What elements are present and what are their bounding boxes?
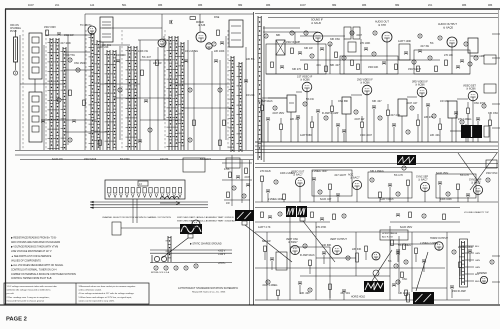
tube V13 SYNC SEP xyxy=(420,182,429,191)
wire video row link2 xyxy=(296,91,302,93)
AGC keyer box xyxy=(226,158,240,168)
capacitor C213 xyxy=(280,66,284,68)
wire vert left 3 xyxy=(67,35,69,145)
selector bus arrowhead 1 xyxy=(90,201,94,203)
test point tp517 xyxy=(308,288,312,292)
selector rotor arrow xyxy=(160,201,180,204)
waveform W2 tag xyxy=(300,217,305,221)
wire C301 lead xyxy=(267,121,269,143)
wire C313 lead xyxy=(373,109,375,143)
svg-text:.047 5%: .047 5% xyxy=(66,54,76,57)
svg-text:OSC 1500: OSC 1500 xyxy=(74,62,86,65)
wire video row bus xyxy=(255,141,498,143)
wire R306 lead xyxy=(311,128,313,143)
svg-text:1500 1W: 1500 1W xyxy=(64,34,74,37)
capacitor C416 xyxy=(466,194,470,196)
svg-text:① 6AC7: ① 6AC7 xyxy=(350,176,360,180)
waveform W4 tag xyxy=(188,234,193,238)
svg-text:33K 2.2MEG: 33K 2.2MEG xyxy=(370,170,384,173)
capacitor C122 xyxy=(138,140,142,142)
svg-text:6AU6 150V: 6AU6 150V xyxy=(436,172,449,175)
wire R409 lead xyxy=(379,198,381,203)
waveform W6 long leader xyxy=(416,252,428,291)
test point tp211 xyxy=(474,56,478,60)
svg-text:4B3: 4B3 xyxy=(266,4,271,7)
capacitor C116 xyxy=(214,60,218,62)
svg-text:270 10K: 270 10K xyxy=(444,54,453,57)
funnel diagonal 1 xyxy=(458,153,480,184)
wire R327 lead top xyxy=(489,114,491,120)
test point tp520 xyxy=(396,280,400,284)
wire cluster h2 xyxy=(222,179,252,181)
selector contact 6 xyxy=(137,188,140,194)
wire C501 lead xyxy=(271,261,273,271)
switch section boundary 3 xyxy=(85,30,87,150)
wire C516 lead xyxy=(299,285,301,295)
svg-text:⑥ 6AQ5: ⑥ 6AQ5 xyxy=(443,26,454,30)
waveform photo W3 pair xyxy=(297,206,307,217)
wire bus h11 xyxy=(44,119,96,121)
waveform photo W5 horiz xyxy=(364,281,384,292)
svg-text:RED: RED xyxy=(475,281,480,283)
coil L1 slug xyxy=(32,37,39,43)
svg-text:5% 2.2MEG: 5% 2.2MEG xyxy=(398,244,411,247)
wire C413 lead xyxy=(439,185,441,203)
mixer box detail 5 xyxy=(102,36,111,38)
wire C310 lead xyxy=(337,127,339,143)
osc coil can det3 xyxy=(231,39,241,41)
wire right edge stub 6 xyxy=(492,281,500,283)
svg-text:voltmeter; AC voltage measured: voltmeter; AC voltage measured at 1000 o… xyxy=(7,289,51,292)
svg-text:HORIZ OUTPUT: HORIZ OUTPUT xyxy=(430,237,448,240)
test point tp408 xyxy=(370,178,374,182)
selector contact 8 xyxy=(149,188,152,194)
ratio det box xyxy=(399,44,410,60)
tube V2 osc xyxy=(158,39,166,47)
svg-text:22K 1W: 22K 1W xyxy=(153,62,162,65)
wire bus h18 xyxy=(100,27,162,29)
svg-text:5% 1500: 5% 1500 xyxy=(120,158,130,161)
wire bus h17 xyxy=(138,39,168,41)
coil L7 slug xyxy=(32,116,39,122)
test point s232 xyxy=(418,34,422,38)
test point tp117 xyxy=(218,88,222,92)
svg-text:4B3: 4B3 xyxy=(362,4,367,7)
wire V11 drop xyxy=(299,187,301,202)
svg-text:SWITCHED PART #A3504-C ASSEMB: SWITCHED PART #A3504-C ASSEMBLY PART #03… xyxy=(177,216,234,219)
wire video row link5 xyxy=(457,98,468,100)
test point tp120 xyxy=(68,138,72,142)
test point near V4 xyxy=(304,31,308,35)
wire loop row3 stage3 xyxy=(436,174,476,198)
svg-text:◄ SEE PARTS LIST FOR ALTERNATE: ◄ SEE PARTS LIST FOR ALTERNATE xyxy=(11,255,52,258)
wire vert left 16 xyxy=(245,47,247,150)
svg-text:270 470K: 270 470K xyxy=(316,226,327,229)
tube V14 tuner triode xyxy=(192,220,200,228)
wire video grid bus xyxy=(262,97,287,99)
wire C325 lead xyxy=(477,121,479,143)
tube V10 VIDEO DET xyxy=(468,91,478,101)
wire R315 lead xyxy=(387,116,389,143)
svg-text:SWITCHED PART #A3504-C ASSEMB: SWITCHED PART #A3504-C ASSEMBLY PART #03… xyxy=(177,220,236,223)
wire right edge stub 1 xyxy=(492,33,500,35)
wire sound feed drop xyxy=(294,32,296,44)
test point tp202 xyxy=(328,42,332,46)
wire Z1 drop xyxy=(275,54,277,74)
test point tp323 xyxy=(460,120,464,124)
resistor R521 xyxy=(405,290,408,296)
resistor R215 xyxy=(351,60,354,66)
capacitor C325 xyxy=(476,118,480,120)
resistor R72 xyxy=(401,272,404,278)
svg-text:⑦ 6CB6: ⑦ 6CB6 xyxy=(466,87,476,91)
wire C416 lead xyxy=(467,197,469,203)
test point tp305 xyxy=(303,102,307,106)
wire R503 lead xyxy=(309,266,311,275)
capacitor C504 xyxy=(322,252,326,254)
tuner link wire xyxy=(121,227,192,229)
coil ladder L106 xyxy=(111,50,117,150)
wire C504 lead xyxy=(323,255,325,265)
switch section boundary 5 xyxy=(164,30,166,150)
capacitor C310 xyxy=(336,124,340,126)
resistor R327 xyxy=(489,120,492,126)
wire bus h5 xyxy=(15,150,253,152)
selector drop wire 1 xyxy=(132,199,134,223)
wire defl v6 xyxy=(355,232,357,276)
wire video row bus2 xyxy=(255,145,498,147)
wire C404 lead xyxy=(313,181,315,203)
waveform W1 leader xyxy=(245,225,292,262)
IF transformer M4 xyxy=(448,101,457,118)
capacitor C410 xyxy=(388,184,392,186)
capacitor C522 xyxy=(450,286,454,288)
svg-text:VERT OUTPUT: VERT OUTPUT xyxy=(330,238,347,241)
svg-text:10K 68K: 10K 68K xyxy=(322,244,332,247)
svg-text:6AU6 .047: 6AU6 .047 xyxy=(320,198,332,201)
wire V10 cathode xyxy=(472,101,474,142)
svg-text:150V IF AMP: 150V IF AMP xyxy=(286,41,300,44)
wire deflection h1 xyxy=(255,267,445,269)
wire right edge stub 3 xyxy=(492,103,500,105)
IF transformer M1 xyxy=(287,95,296,112)
capacitor C210 xyxy=(460,60,464,62)
svg-text:VOLUME LINEARITY TOP: VOLUME LINEARITY TOP xyxy=(464,211,489,214)
resistor R230 xyxy=(305,64,308,70)
svg-text:4B3: 4B3 xyxy=(488,4,493,7)
selector contact 7 pointer xyxy=(143,194,146,198)
coil L6 slug xyxy=(32,106,39,112)
svg-text:5% 4.7K: 5% 4.7K xyxy=(460,174,469,177)
wire V5 drop xyxy=(386,42,388,74)
capacitor C219 xyxy=(404,52,408,54)
tube V6 output 6AQ5 xyxy=(447,37,457,47)
waveform photo W1 sawtooth xyxy=(235,210,254,221)
tuner trimmer bank xyxy=(112,222,121,235)
resistor R231 xyxy=(325,66,328,72)
wire row3 top bus xyxy=(255,163,498,165)
bus ladder 258 xyxy=(258,16,261,160)
test point tp505 xyxy=(346,256,350,260)
test point tp114 xyxy=(188,88,192,92)
wire mixer link xyxy=(161,14,163,39)
svg-text:+HOT+: +HOT+ xyxy=(218,263,226,265)
resistor R312 xyxy=(361,122,364,128)
wire right edge stub 4 xyxy=(492,127,500,129)
wire deflection h2 xyxy=(255,299,470,301)
wire R330 lead top xyxy=(465,124,467,130)
coil ladder L109 xyxy=(167,36,173,150)
svg-text:1500 10K: 1500 10K xyxy=(368,66,379,69)
wire row3 lower bus b xyxy=(255,207,460,209)
wire video bus d xyxy=(255,152,498,154)
selector contact 9 pointer xyxy=(155,194,158,198)
wire sound row mid xyxy=(300,59,440,61)
capacitor C516 xyxy=(298,282,302,284)
bus vertical 263 xyxy=(263,26,265,162)
wire C519 lead xyxy=(343,293,345,301)
wire R500 lead xyxy=(264,252,266,261)
page border top xyxy=(5,8,500,10)
svg-text:per volt.: per volt. xyxy=(7,292,15,295)
selector contact 4 pointer xyxy=(126,194,129,198)
wire bus h3 xyxy=(100,44,130,46)
wire bus h8 xyxy=(20,83,64,85)
test point 1 xyxy=(13,71,17,75)
wire M3 drop xyxy=(401,116,403,142)
svg-text:JUMPER ON TERMINALS INDICATE C: JUMPER ON TERMINALS INDICATE CONTINUED N… xyxy=(11,273,76,276)
wire video row link3 xyxy=(351,94,362,96)
resistor R66 xyxy=(311,212,314,218)
svg-text:470K: 470K xyxy=(224,168,230,171)
selector bus arrow 2 xyxy=(90,204,208,206)
wire R309 lead top xyxy=(331,100,333,106)
mixer box detail 1 xyxy=(102,21,111,23)
wire loop sound stage 3 xyxy=(414,50,470,74)
capacitor C104 xyxy=(72,120,76,122)
coil ladder L101 xyxy=(54,38,60,150)
svg-text:measured from point to chassis: measured from point to chassis ground. xyxy=(7,299,45,302)
yoke pin wire 3 xyxy=(465,259,474,261)
wire R309 lead xyxy=(331,112,333,143)
wire C328 lead xyxy=(343,133,345,143)
svg-text:2C1: 2C1 xyxy=(55,4,60,7)
svg-text:12AT7 100K: 12AT7 100K xyxy=(398,40,412,43)
wire loop sound stage 1 xyxy=(266,44,326,74)
ac interlock plug xyxy=(152,255,167,263)
selector contact 13 xyxy=(178,188,181,194)
wire bus h10 xyxy=(170,83,230,85)
coil ladder L112 xyxy=(229,56,235,152)
svg-text:12AT7 6AU6: 12AT7 6AU6 xyxy=(380,198,394,201)
wire defl v5 xyxy=(329,247,331,300)
wire R327 lead xyxy=(489,126,491,143)
svg-text:PAGE 2: PAGE 2 xyxy=(6,317,27,323)
svg-text:CHANNEL SELECTOR SWITCH SHOWN: CHANNEL SELECTOR SWITCH SHOWN IN CHANNEL… xyxy=(102,216,171,219)
wire bus h14 xyxy=(114,97,170,99)
resistor R115 xyxy=(193,120,196,126)
wire V14s drop xyxy=(477,195,479,202)
wire bus h7 xyxy=(20,159,253,161)
svg-text:22K 5%: 22K 5% xyxy=(246,58,255,61)
wire R518 lead xyxy=(329,290,331,299)
waveform W4 leader xyxy=(162,238,188,258)
capacitor C510 xyxy=(422,260,426,262)
capacitor C67 xyxy=(396,214,400,216)
svg-text:2.2MEG 100K: 2.2MEG 100K xyxy=(268,198,283,201)
test point tp511 xyxy=(452,250,456,254)
quad coil Z1 x1 xyxy=(276,40,285,55)
test point power 4 xyxy=(184,266,188,270)
resistor R403 xyxy=(283,194,286,200)
wire defl h7 xyxy=(412,287,447,289)
wire R318 lead xyxy=(417,126,419,143)
svg-text:.047 12AT7: .047 12AT7 xyxy=(334,174,347,177)
switch S1 shaft center xyxy=(15,39,17,60)
resistor R70 xyxy=(391,240,394,246)
yoke connector J1 xyxy=(459,241,465,285)
selector contact 8 pointer xyxy=(149,194,152,198)
svg-text:.047 100K: .047 100K xyxy=(60,42,71,45)
capacitor C207 xyxy=(418,50,422,52)
capacitor C113 xyxy=(184,60,188,62)
svg-text:BLU: BLU xyxy=(475,274,480,276)
capacitor C507 xyxy=(396,250,400,252)
capacitor C101 xyxy=(57,33,61,35)
svg-text:4B3: 4B3 xyxy=(198,4,203,7)
capacitor C401 xyxy=(266,190,270,192)
resistor R318 xyxy=(417,120,420,126)
quad coil Z1 xyxy=(276,40,285,55)
wire R330 lead xyxy=(465,136,467,143)
test point tp126 xyxy=(57,98,61,102)
wire vert left 14 xyxy=(219,60,221,150)
coil L5 slug xyxy=(32,96,39,102)
wire C507 lead xyxy=(397,253,399,263)
wire M1 drop xyxy=(290,112,292,142)
capacitor C119 xyxy=(244,80,248,82)
svg-text:.0047: .0047 xyxy=(356,34,363,37)
svg-text:OFF-ON: OFF-ON xyxy=(10,25,19,27)
wire V13 drop xyxy=(424,192,426,202)
svg-text:5% 4.7K: 5% 4.7K xyxy=(394,174,403,177)
resistor R62 xyxy=(245,168,248,174)
svg-text:2 Res. readings over 1 meg ar: 2 Res. readings over 1 meg are in megohm… xyxy=(7,297,50,299)
svg-text:③ 6J6: ③ 6J6 xyxy=(198,23,206,27)
tube V16 vert out xyxy=(332,245,341,254)
selector contact 6 pointer xyxy=(137,194,140,198)
wire top bus right 2 xyxy=(268,17,498,19)
wire bus h15 xyxy=(64,69,92,71)
svg-text:1W 1500: 1W 1500 xyxy=(116,54,126,57)
test point tp502 xyxy=(303,244,307,248)
test point s231 xyxy=(350,31,354,35)
test point t67 xyxy=(422,214,426,218)
svg-text:5% 1W: 5% 1W xyxy=(306,98,314,101)
coil ladder L103 xyxy=(89,33,95,150)
test point tp123 xyxy=(188,138,192,142)
capacitor C216 xyxy=(320,48,324,50)
selector contact 5 xyxy=(131,188,134,194)
bus vertical left of sound section xyxy=(253,12,255,305)
selector contact 13 pointer xyxy=(179,194,182,198)
IF transformer M3 xyxy=(398,99,407,116)
wire row3 top bus b xyxy=(255,167,498,169)
svg-text:22K 100K: 22K 100K xyxy=(214,50,225,53)
svg-text:4B3: 4B3 xyxy=(462,4,467,7)
capacitor C304 xyxy=(296,116,300,118)
selector contact 1 xyxy=(108,188,111,194)
svg-text:2.2MEG 1500: 2.2MEG 1500 xyxy=(458,246,473,249)
wire R412 lead xyxy=(407,186,409,203)
svg-text:4B3: 4B3 xyxy=(158,4,163,7)
svg-text:4C07: 4C07 xyxy=(28,4,34,7)
capacitor C301 xyxy=(266,118,270,120)
tube V19 damper xyxy=(480,276,487,283)
wire C407 lead xyxy=(337,197,339,203)
wire R324 lead xyxy=(467,114,469,143)
horiz range box xyxy=(380,230,408,240)
wire R306 lead top xyxy=(311,116,313,122)
capacitor C519 xyxy=(342,290,346,292)
test point tp205 xyxy=(372,52,376,56)
svg-text:270 100K: 270 100K xyxy=(360,42,371,45)
test point tp108 xyxy=(118,88,122,92)
wire bus h16 xyxy=(182,107,232,109)
capacitor C316 xyxy=(392,124,396,126)
svg-text:6AU6 270: 6AU6 270 xyxy=(52,158,63,161)
wire V7 cathode xyxy=(306,92,308,142)
tube V1 RF amp xyxy=(88,26,96,34)
resistor R22 mixer plate xyxy=(190,17,196,20)
waveform photo W2 pair xyxy=(286,206,296,217)
quad coil Z1 x2 xyxy=(276,40,285,55)
test point t62 xyxy=(242,194,246,198)
capacitor C319 xyxy=(426,104,430,106)
test point tp414 xyxy=(446,192,450,196)
wire top bus right xyxy=(255,13,498,15)
capacitor C110 xyxy=(144,100,148,102)
test point near V5 xyxy=(373,31,377,35)
switch wafer 4B3 upper xyxy=(29,33,42,79)
capacitor C125 xyxy=(41,120,45,122)
coil ladder L113 xyxy=(237,62,243,152)
svg-text:5% 12AT7: 5% 12AT7 xyxy=(200,158,212,161)
svg-text:▶ VOLTAGE READINGS TAKEN WITH: ▶ VOLTAGE READINGS TAKEN WITH VTVM xyxy=(11,246,58,249)
test point power 2 xyxy=(164,266,168,270)
wire R303 lead xyxy=(280,130,282,143)
svg-text:68K 1W: 68K 1W xyxy=(262,240,271,243)
resistor R503 xyxy=(309,260,312,266)
svg-text:IF AMP 6AU6: IF AMP 6AU6 xyxy=(300,254,315,257)
wire C304 lead xyxy=(297,119,299,143)
output transformer T3 xyxy=(468,38,478,53)
svg-text:FINE: FINE xyxy=(214,17,220,19)
svg-text:2C1: 2C1 xyxy=(428,4,433,7)
wire C522 lead xyxy=(451,289,453,299)
capacitor C65 xyxy=(268,216,272,218)
terminal board TB2 xyxy=(484,84,496,93)
resistor R232 xyxy=(417,66,420,72)
tube V8 2ND VIDEO IF xyxy=(362,85,372,95)
selector contact 3 pointer xyxy=(120,194,123,198)
page border right xyxy=(498,9,500,305)
switch S1 shaft bar xyxy=(14,37,18,62)
svg-text:33K 1W: 33K 1W xyxy=(304,47,313,50)
wire R324 lead top xyxy=(467,102,469,108)
selector contact 12 pointer xyxy=(173,194,176,198)
test point tp302 xyxy=(273,106,277,110)
